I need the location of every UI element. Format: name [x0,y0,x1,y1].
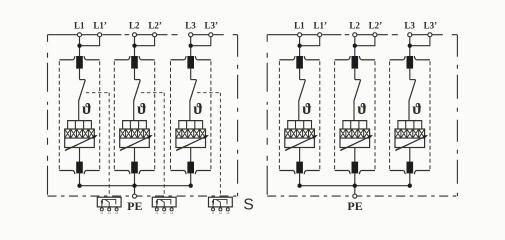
varistor MOV comb bar (left variant (with remote contact) module 3) [178,120,203,122]
svg-text:12: 12 [163,211,167,215]
wire disconnector to varistor (left variant (with remote contact) module 2) [133,100,135,120]
mechanical linkage dashed line (left variant (with remote contact) module 1) [86,92,109,94]
wire L3' terminal down and left to node (right variant module 3) [410,37,430,46]
svg-text:14: 14 [170,211,174,215]
wire contact to PE bus (left variant (with remote contact) module 2) [134,173,136,185]
wire disconnector to varistor (right variant module 1) [298,100,300,120]
wire varistor to bottom contact (right variant module 2) [354,148,356,162]
terminal L1' (right variant module 1) [318,33,322,37]
svg-text:L2: L2 [129,21,140,31]
varistor hatch cells (left variant (with remote contact) module 1) [65,129,95,138]
remote contact FM2 terminals [156,207,158,208]
wire L2' terminal down and left to node (right variant module 2) [355,37,375,46]
plug-in contact bottom blade (black) (right variant module 3) [407,162,414,174]
svg-text:ϑ: ϑ [412,101,422,118]
wire varistor to bottom contact (left variant (with remote contact) module 3) [190,148,192,162]
terminal L3 (right variant module 3) [408,33,412,37]
varistor MOV comb bar (right variant module 2) [342,120,367,122]
wire contact to disconnector (left variant (with remote contact) module 3) [190,69,192,80]
junction node 2 (dot) [132,44,136,48]
plug-in contact bottom, socket lines and arcs (right variant module 1) [279,170,293,172]
svg-text:14: 14 [226,211,230,215]
varistor hatch cells (right variant module 1) [285,129,315,138]
left variant (with remote contact): wire bus to PE terminal [134,186,136,194]
wire contact to disconnector (right variant module 3) [409,69,411,80]
wire L1' terminal down and left to node (right variant module 1) [300,37,320,46]
varistor MOV body (left variant (with remote contact) module 2) [120,129,150,148]
wire disconnector to varistor (left variant (with remote contact) module 1) [78,100,80,120]
thermal disconnector switch blade (right variant module 1) [299,80,306,101]
plug-in contact bottom, socket lines and arcs (right variant module 2) [335,170,349,172]
varistor MOV body (right variant module 2) [340,129,370,148]
varistor MOV body (right variant module 3) [395,129,425,148]
terminal L2' (left variant (with remote contact) module 2) [153,33,157,37]
svg-text:11: 11 [100,211,104,215]
svg-text:ϑ: ϑ [82,101,92,118]
right variant: SPD enclosure outline right edge (chain line) [456,35,458,196]
svg-text:ϑ: ϑ [137,101,147,118]
varistor arrow (left variant (with remote contact) module 2) [120,136,151,151]
remote contact FM3 internal changeover contact [214,199,228,204]
svg-text:ϑ: ϑ [357,101,367,118]
svg-text:PE: PE [347,199,362,213]
plug-in contact top, socket lines and arcs (right variant module 2) [335,59,349,61]
mechanical linkage dashed line (left variant (with remote contact) module 3) [197,92,220,94]
wire L1 terminal down to node (left variant (with remote contact) module 1) [79,37,81,57]
remote contact FM1 internal changeover contact [102,199,116,204]
svg-text:12: 12 [108,211,112,215]
wire contact to PE bus (left variant (with remote contact) module 3) [190,173,192,185]
svg-text:L3: L3 [185,21,196,31]
wire varistor to bottom contact (left variant (with remote contact) module 2) [134,148,136,162]
remote contact FM1 terminals [101,207,103,208]
junction node 1 (dot) [297,44,301,48]
wire varistor to bottom contact (right variant module 3) [409,148,411,162]
varistor hatch cells (right variant module 2) [340,129,370,138]
module boundary dashed box (left variant (with remote contact) module 2) [113,61,115,169]
terminal L3' (left variant (with remote contact) module 3) [209,33,213,37]
thermal disconnector switch blade (right variant module 2) [354,80,361,101]
right variant: SPD enclosure outline bottom edge (chain line) [267,195,457,197]
bus junction dot (left variant (with remote contact) module 2) [132,184,136,188]
wire contact to PE bus (right variant module 2) [354,173,356,185]
thermal disconnector switch blade (right variant module 3) [409,80,416,101]
wire contact to PE bus (right variant module 3) [409,173,411,185]
svg-text:L1’: L1’ [313,21,327,31]
plug-in contact bottom blade (black) (right variant module 1) [296,162,303,174]
varistor MOV comb bar (left variant (with remote contact) module 1) [67,120,92,122]
remote contact FM3 terminals [212,207,214,208]
svg-text:L1: L1 [294,21,305,31]
wire L2' terminal down and left to node (left variant (with remote contact) module 2) [135,37,155,46]
remote contact FM2 internal changeover contact [157,199,171,204]
plug-in contact top blade (black) (right variant module 3) [407,56,414,69]
varistor arrow (right variant module 2) [340,136,371,151]
junction node 3 (dot) [408,44,412,48]
plug-in contact top, socket lines and arcs (right variant module 1) [279,59,293,61]
varistor MOV comb bar (left variant (with remote contact) module 2) [122,120,147,122]
varistor arrow (right variant module 3) [395,136,426,151]
plug-in contact top, socket lines and arcs (right variant module 3) [390,59,404,61]
wire L3 terminal down to node (left variant (with remote contact) module 3) [190,37,192,57]
module boundary dashed box (left variant (with remote contact) module 1) [58,61,60,169]
plug-in contact top blade (black) (right variant module 1) [296,56,303,69]
right variant: SPD enclosure outline top edge segments [267,34,457,36]
remote signalling contact FM2 box [152,197,176,207]
svg-text:L3’: L3’ [205,21,219,31]
varistor arrow (right variant module 1) [285,136,316,151]
svg-text:PE: PE [127,199,142,213]
wire contact to disconnector (left variant (with remote contact) module 1) [79,69,81,80]
wire L1' terminal down and left to node (left variant (with remote contact) module 1) [80,37,100,46]
svg-text:ϑ: ϑ [302,101,312,118]
right variant: PE terminal [353,194,357,198]
terminal L1 (left variant (with remote contact) module 1) [77,33,81,37]
remote signalling contact FM1 box [97,197,121,207]
terminal L2' (right variant module 2) [373,33,377,37]
svg-text:L2’: L2’ [369,21,383,31]
plug-in contact top blade (black) (left variant (with remote contact) module 1) [76,56,83,69]
svg-text:14: 14 [115,211,119,215]
svg-text:L2: L2 [349,21,360,31]
wire contact to disconnector (right variant module 1) [299,69,301,80]
svg-text:S: S [243,196,253,213]
junction node 1 (dot) [77,44,81,48]
wire disconnector to varistor (right variant module 3) [408,100,410,120]
terminal L1 (right variant module 1) [298,33,302,37]
wire contact to disconnector (right variant module 2) [354,69,356,80]
varistor MOV body (left variant (with remote contact) module 3) [176,129,206,148]
bus junction dot (right variant module 1) [297,184,301,188]
wire contact to PE bus (right variant module 1) [299,173,301,185]
terminal L1' (left variant (with remote contact) module 1) [98,33,102,37]
wire L3 terminal down to node (right variant module 3) [409,37,411,57]
plug-in contact top, socket lines and arcs (left variant (with remote contact) module 3) [171,59,185,61]
thermal disconnector switch blade (left variant (with remote contact) module 3) [190,80,197,101]
wire disconnector to varistor (right variant module 2) [353,100,355,120]
wire L2 terminal down to node (right variant module 2) [354,37,356,57]
svg-text:11: 11 [211,211,215,215]
svg-text:L2’: L2’ [148,21,162,31]
left variant (with remote contact): PE bus wire [80,185,191,187]
junction node 2 (dot) [353,44,357,48]
wire L2 terminal down to node (left variant (with remote contact) module 2) [134,37,136,57]
left variant (with remote contact): SPD enclosure outline right edge (chain line) [237,35,239,196]
plug-in contact top, socket lines and arcs (left variant (with remote contact) module 2) [114,59,128,61]
thermal disconnector switch blade (left variant (with remote contact) module 2) [134,80,141,101]
wire L1 terminal down to node (right variant module 1) [299,37,301,57]
plug-in contact bottom, socket lines and arcs (left variant (with remote contact) module 1) [59,170,73,172]
plug-in contact bottom, socket lines and arcs (right variant module 3) [390,170,404,172]
left variant (with remote contact): PE terminal [132,194,136,198]
wire disconnector to varistor (left variant (with remote contact) module 3) [189,100,191,120]
mechanical linkage dashed line (left variant (with remote contact) module 2) [141,92,164,94]
wire L3' terminal down and left to node (left variant (with remote contact) module 3) [191,37,211,46]
plug-in contact top, socket lines and arcs (left variant (with remote contact) module 1) [59,59,73,61]
bus junction dot (left variant (with remote contact) module 3) [189,184,193,188]
varistor MOV comb bar (right variant module 3) [397,120,422,122]
bus junction dot (right variant module 2) [353,184,357,188]
bus junction dot (left variant (with remote contact) module 1) [77,184,81,188]
varistor hatch cells (left variant (with remote contact) module 2) [120,129,150,138]
varistor hatch cells (right variant module 3) [395,129,425,138]
junction node 3 (dot) [189,44,193,48]
remote signalling contact FM3 box [209,197,233,207]
left variant (with remote contact): SPD enclosure outline top edge segments [48,34,238,36]
plug-in contact bottom blade (black) (left variant (with remote contact) module 3) [187,162,194,174]
module boundary dashed box (right variant module 3) [389,61,391,169]
terminal L3 (left variant (with remote contact) module 3) [189,33,193,37]
bus junction dot (right variant module 3) [408,184,412,188]
plug-in contact top blade (black) (right variant module 2) [352,56,359,69]
svg-text:12: 12 [219,211,223,215]
svg-text:ϑ: ϑ [193,101,203,118]
wire contact to PE bus (left variant (with remote contact) module 1) [79,173,81,185]
plug-in contact bottom, socket lines and arcs (left variant (with remote contact) module 2) [114,170,128,172]
left variant (with remote contact): SPD enclosure outline bottom edge (chain line) [48,195,238,197]
left variant (with remote contact): SPD enclosure outline left edge (chain line) [47,35,49,196]
module boundary dashed box (left variant (with remote contact) module 3) [170,61,172,169]
terminal L2 (left variant (with remote contact) module 2) [132,33,136,37]
varistor MOV comb bar (right variant module 1) [287,120,312,122]
wire contact to disconnector (left variant (with remote contact) module 2) [134,69,136,80]
plug-in contact bottom, socket lines and arcs (left variant (with remote contact) module 3) [171,170,185,172]
right variant: wire bus to PE terminal [354,186,356,194]
plug-in contact top blade (black) (left variant (with remote contact) module 3) [187,56,194,69]
thermal disconnector switch blade (left variant (with remote contact) module 1) [79,80,86,101]
varistor arrow (left variant (with remote contact) module 3) [176,136,207,151]
svg-text:11: 11 [155,211,159,215]
svg-text:L1’: L1’ [93,21,107,31]
varistor hatch cells (left variant (with remote contact) module 3) [176,129,206,138]
plug-in contact top blade (black) (left variant (with remote contact) module 2) [131,56,138,69]
plug-in contact bottom blade (black) (right variant module 2) [352,162,359,174]
wire varistor to bottom contact (left variant (with remote contact) module 1) [79,148,81,162]
plug-in contact bottom blade (black) (left variant (with remote contact) module 1) [76,162,83,174]
varistor MOV body (right variant module 1) [285,129,315,148]
plug-in contact bottom blade (black) (left variant (with remote contact) module 2) [131,162,138,174]
varistor arrow (left variant (with remote contact) module 1) [65,136,96,151]
right variant: SPD enclosure outline left edge (chain line) [266,35,268,196]
terminal L2 (right variant module 2) [353,33,357,37]
right variant: PE bus wire [300,185,410,187]
svg-text:L3’: L3’ [424,21,438,31]
module boundary dashed box (right variant module 2) [334,61,336,169]
terminal L3' (right variant module 3) [428,33,432,37]
module boundary dashed box (right variant module 1) [278,61,280,169]
wire varistor to bottom contact (right variant module 1) [299,148,301,162]
varistor MOV body (left variant (with remote contact) module 1) [65,129,95,148]
svg-text:L3: L3 [404,21,415,31]
svg-text:L1: L1 [74,21,85,31]
